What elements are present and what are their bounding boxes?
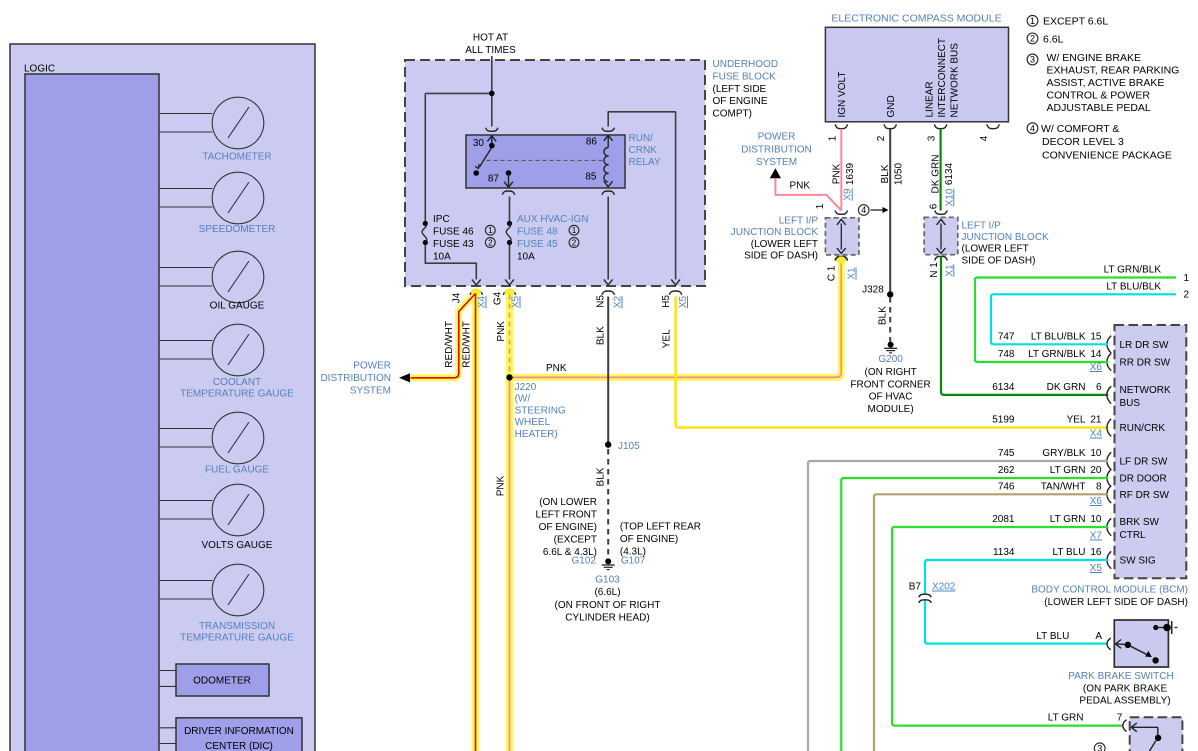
electronic compass module title [831,13,1001,25]
instrument panel cluster outer box (LOGIC) [10,44,315,751]
connector cup H5 [669,291,681,295]
relay pin 85 [585,172,614,195]
svg-text:ELECTRONIC COMPASS MODULE: ELECTRONIC COMPASS MODULE [831,13,1001,25]
connector labels N5 X2 [596,295,624,308]
svg-text:CONTROL & POWER: CONTROL & POWER [1047,89,1151,101]
gauge transmission temperature gauge [159,564,294,643]
relay linkage dashed line [487,159,606,161]
wire blk J105 to ground dashed [607,449,609,558]
splice J220 [506,374,566,440]
yellow highlight glow red/wht branch to power distribution [410,293,476,378]
svg-text:LT BLU: LT BLU [1036,631,1069,642]
svg-text:OF HVAC: OF HVAC [869,392,913,403]
power distribution system arrow up [741,132,812,192]
label BLK below J105 [595,467,606,486]
BCM pin 20 DR DOOR labels and cup [998,465,1167,487]
svg-text:B7: B7 [909,582,922,593]
svg-text:LEFT I/P: LEFT I/P [779,216,819,227]
battery feed wire into fuse block [425,56,494,221]
svg-text:X5: X5 [511,295,522,308]
relay caption [629,133,661,168]
svg-text:IGN VOLT: IGN VOLT [837,72,848,118]
BCM pin 16 SW SIG labels and cup [993,547,1156,569]
svg-text:CRNK: CRNK [629,145,658,156]
svg-text:PNK: PNK [496,321,507,342]
svg-text:NETWORK BUS: NETWORK BUS [950,43,961,118]
svg-text:OF ENGINE): OF ENGINE) [539,522,597,533]
svg-text:TEMPERATURE GAUGE: TEMPERATURE GAUGE [180,389,294,400]
svg-text:C 1: C 1 [826,265,837,281]
underhood fuse block caption [713,59,779,120]
svg-text:(W/: (W/ [515,394,531,405]
legend note 4 [1027,123,1172,162]
svg-text:86: 86 [586,136,598,147]
svg-text:X2: X2 [613,295,624,308]
svg-text:LINEAR: LINEAR [925,81,936,117]
svg-text:10A: 10A [517,251,535,262]
svg-text:PNK: PNK [831,163,842,184]
svg-text:LT GRN/BLK: LT GRN/BLK [1028,349,1086,360]
svg-text:LT BLU: LT BLU [1053,547,1086,558]
wire pnk branch to power distribution (top) [775,179,841,211]
svg-text:1134: 1134 [993,547,1015,558]
gauge volts gauge [159,484,273,551]
svg-text:SW SIG: SW SIG [1120,556,1156,567]
svg-text:RELAY: RELAY [629,157,661,168]
svg-text:LEFT I/P: LEFT I/P [962,221,1002,232]
svg-text:X5: X5 [678,295,689,308]
svg-text:X202: X202 [932,582,956,593]
gauge coolant temperature gauge [159,324,294,399]
svg-text:G103: G103 [595,575,620,586]
wire lt grn 2081 to park brake lamp [892,527,1122,726]
connector oval C1 [836,256,846,263]
connector cup C1 redraw [835,257,847,261]
BCM connector link X5 [1090,563,1103,574]
svg-text:FUSE 45: FUSE 45 [517,239,558,250]
right I/P junction block (dk grn) [924,203,958,260]
svg-text:LEFT FRONT: LEFT FRONT [536,510,597,521]
svg-text:30: 30 [473,138,485,149]
gauge tachometer [159,97,272,162]
ECM pin 2 cup [876,124,896,141]
svg-text:DR DOOR: DR DOOR [1120,474,1167,485]
svg-text:6134: 6134 [944,162,955,185]
svg-text:746: 746 [998,481,1015,492]
BCM pin 10 BRK SW CTRL labels and cup [992,514,1159,541]
svg-text:J4: J4 [452,292,463,303]
note 4 arrow to blk wire [858,205,888,216]
svg-text:7: 7 [1117,713,1123,724]
inline connector X202 B7 [909,582,956,603]
gauge fuel gauge [159,412,269,475]
run/crnk relay box [466,135,625,188]
svg-text:PARK BRAKE SWITCH: PARK BRAKE SWITCH [1068,671,1173,682]
svg-text:LT BLU/BLK: LT BLU/BLK [1106,281,1161,292]
svg-text:2081: 2081 [992,514,1015,525]
svg-text:INTERCONNECT: INTERCONNECT [937,38,948,117]
svg-text:21: 21 [1090,415,1102,426]
gauge oil gauge [159,251,265,311]
svg-text:LT GRN: LT GRN [1048,713,1084,724]
gauge speedometer [159,172,275,235]
svg-text:LT GRN: LT GRN [1050,465,1086,476]
svg-text:TRANSMISSION: TRANSMISSION [199,621,275,632]
svg-text:20: 20 [1090,465,1102,476]
connector cup G4 [503,291,515,295]
svg-text:LT GRN/BLK: LT GRN/BLK [1104,265,1162,276]
svg-text:WHEEL: WHEEL [515,417,551,428]
wire relay 86 to H5 [608,112,680,285]
wire red/wht vertical to bottom [475,294,477,751]
svg-text:262: 262 [998,465,1015,476]
labels N1 X1 [929,262,955,278]
svg-text:1639: 1639 [845,162,856,185]
svg-text:BLK: BLK [595,326,606,345]
BCM caption [1031,585,1188,609]
svg-text:4: 4 [1030,123,1035,133]
wire lt grn/blk page link 1 [975,265,1190,363]
svg-text:JUNCTION BLOCK: JUNCTION BLOCK [731,227,819,238]
svg-text:6.6L: 6.6L [1043,33,1064,45]
label YEL [661,329,672,348]
svg-text:FUSE BLOCK: FUSE BLOCK [713,71,777,82]
svg-text:(6.6L): (6.6L) [594,587,620,598]
label PNK below J220 [496,475,507,496]
svg-text:PNK: PNK [789,181,810,192]
svg-text:1050: 1050 [894,162,905,185]
yellow highlight glow pnk vertical G4 [506,293,513,751]
svg-text:GRY/BLK: GRY/BLK [1042,448,1085,459]
svg-text:ADJUSTABLE PEDAL: ADJUSTABLE PEDAL [1047,102,1151,114]
svg-text:RED/WHT: RED/WHT [462,321,473,368]
wire pnk J220 branch to C1 [510,258,842,377]
svg-text:HOT AT: HOT AT [473,33,508,44]
svg-text:CONVENIENCE PACKAGE: CONVENIENCE PACKAGE [1042,149,1172,161]
wire dk grn ECM pin3 to X10 [939,129,941,211]
svg-text:3: 3 [1030,55,1035,65]
svg-text:DK GRN: DK GRN [931,155,942,194]
svg-text:COOLANT: COOLANT [213,377,261,388]
svg-text:DK GRN: DK GRN [1047,382,1086,393]
svg-text:ODOMETER: ODOMETER [193,676,251,687]
svg-text:EXCEPT 6.6L: EXCEPT 6.6L [1043,16,1108,28]
svg-text:(ON LOWER: (ON LOWER [539,497,597,508]
wire lt grn 262 [841,478,1108,751]
connector oval J4 [471,288,481,295]
svg-text:1: 1 [572,226,577,235]
wire pnk G4 to J220 dashed [509,295,511,375]
svg-text:LT BLU/BLK: LT BLU/BLK [1031,331,1086,342]
ECM pin name LINEAR INTERCONNECT NETWORK BUS [925,38,961,117]
svg-text:X6: X6 [1090,496,1103,507]
svg-text:ASSIST, ACTIVE BRAKE: ASSIST, ACTIVE BRAKE [1047,77,1165,89]
svg-text:J328: J328 [862,285,884,296]
ground G102 location text [536,497,597,558]
svg-text:RED/WHT: RED/WHT [444,321,455,368]
svg-text:(LEFT SIDE: (LEFT SIDE [713,84,767,95]
svg-text:GND: GND [886,95,897,117]
svg-text:STEERING: STEERING [515,405,566,416]
electronic compass module box [825,27,1008,122]
svg-text:SPEEDOMETER: SPEEDOMETER [199,224,276,235]
svg-text:8: 8 [1096,481,1102,492]
relay switch lever [473,148,491,176]
ECM pin 1 cup [827,124,847,141]
svg-text:(ON RIGHT: (ON RIGHT [864,367,916,378]
connector labels H5 X5 [661,295,689,308]
ground G107 location text [620,522,701,558]
wire blk J328 to G200 dashed [889,297,891,342]
svg-text:TAN/WHT: TAN/WHT [1041,481,1086,492]
svg-text:BRK SW: BRK SW [1120,517,1160,528]
svg-text:BODY CONTROL MODULE (BCM): BODY CONTROL MODULE (BCM) [1031,585,1188,596]
svg-text:(LOWER LEFT SIDE OF DASH): (LOWER LEFT SIDE OF DASH) [1044,597,1188,608]
svg-text:RUN/: RUN/ [629,133,654,144]
svg-text:POWER: POWER [758,132,796,143]
svg-text:(TOP LEFT REAR: (TOP LEFT REAR [620,522,701,533]
svg-text:FUSE 46: FUSE 46 [433,226,474,237]
connector cup N5 [602,291,614,295]
wire yel H5 to BCM RUN/CRK [676,297,1109,428]
cluster inner logic box [25,74,159,751]
svg-text:(4.3L): (4.3L) [620,546,646,557]
svg-text:DISTRIBUTION: DISTRIBUTION [320,373,391,384]
park brake switch contacts [1153,621,1177,634]
svg-text:J105: J105 [618,441,640,452]
svg-text:87: 87 [488,173,500,184]
svg-text:X7: X7 [1090,531,1103,542]
svg-text:G200: G200 [878,354,903,365]
svg-text:BUS: BUS [1120,398,1141,409]
labels C1 X1 [826,265,857,281]
body control module (BCM) box [1115,325,1187,578]
svg-text:H5: H5 [661,295,672,308]
wire gry/blk 745 [808,461,1108,751]
wire blk ECM pin2 to J328 [889,129,891,295]
svg-text:2: 2 [1184,289,1190,300]
svg-text:(LOWER LEFT: (LOWER LEFT [962,244,1029,255]
svg-text:10A: 10A [433,251,451,262]
svg-text:OF ENGINE: OF ENGINE [713,96,768,107]
connector cup J4 [470,291,482,295]
svg-text:J220: J220 [515,382,537,393]
legend note 3 [1027,52,1179,114]
BCM pin 15 LR DR SW labels and cup [998,331,1169,353]
svg-text:N 1: N 1 [929,262,940,278]
svg-text:LF DR SW: LF DR SW [1120,457,1168,468]
svg-text:PNK: PNK [496,475,507,496]
labels RED/WHT [444,321,473,368]
driver information center (DIC) box [159,718,302,751]
svg-text:CTRL: CTRL [1120,530,1147,541]
splice J328 [862,285,893,298]
svg-text:CENTER (DIC): CENTER (DIC) [205,741,273,751]
note 3 circle bottom [1094,743,1105,751]
ECM pin 4 cup [979,124,999,141]
BCM pin 10 LF DR SW labels and cup [998,448,1168,470]
svg-text:VOLTS GAUGE: VOLTS GAUGE [202,540,273,551]
wire fuse 45 to G4 exit [505,245,514,285]
svg-text:ALL TIMES: ALL TIMES [465,45,516,56]
svg-text:LT GRN: LT GRN [1050,514,1086,525]
svg-text:PEDAL ASSEMBLY): PEDAL ASSEMBLY) [1079,695,1170,706]
svg-text:4: 4 [979,135,990,141]
svg-text:G4: G4 [493,291,504,305]
svg-text:MODULE): MODULE) [868,404,914,415]
svg-text:(ON FRONT OF RIGHT: (ON FRONT OF RIGHT [555,600,661,611]
svg-text:X4: X4 [477,295,488,308]
svg-text:DISTRIBUTION: DISTRIBUTION [741,145,812,156]
legend note 2 [1027,33,1063,45]
svg-text:RUN/CRK: RUN/CRK [1120,423,1166,434]
svg-text:SIDE OF DASH): SIDE OF DASH) [744,250,818,261]
svg-text:W/ COMFORT &: W/ COMFORT & [1041,123,1119,135]
svg-text:LR DR SW: LR DR SW [1120,340,1169,351]
ECM pin name IGN VOLT [837,72,848,118]
wire lt blu 1134 lower to park brake switch [925,601,1107,644]
HOT AT ALL TIMES label [465,33,516,56]
svg-text:W/ ENGINE BRAKE: W/ ENGINE BRAKE [1047,52,1142,64]
label PNK horizontal [546,363,567,374]
park brake switch lever [1116,640,1159,664]
label BLK at G200 [878,306,889,325]
svg-text:2: 2 [876,135,887,141]
connector labels G4 X5 [493,291,522,308]
svg-text:(LOWER LEFT: (LOWER LEFT [751,239,818,250]
wire red/wht branch to power distribution system [411,294,476,378]
wire lt blu 1134 upper [925,560,1108,594]
svg-text:X10: X10 [944,188,955,206]
svg-text:2: 2 [488,238,493,247]
park brake switch box [1114,620,1168,667]
park brake indicator pin 7 cup and labels [1048,713,1127,732]
underhood fuse block box [405,60,705,286]
svg-text:2: 2 [572,238,577,247]
svg-text:1: 1 [827,135,838,141]
svg-text:745: 745 [998,448,1015,459]
svg-text:SIDE OF DASH): SIDE OF DASH) [962,255,1036,266]
svg-text:5199: 5199 [992,415,1015,426]
svg-text:1: 1 [815,203,826,209]
BCM connector link X6 (door rows) [1090,496,1103,507]
svg-text:14: 14 [1090,349,1102,360]
svg-text:A: A [1095,631,1102,642]
wire relay 85 to N5 [604,197,613,286]
park brake indicator box (bottom right) [1130,717,1183,751]
svg-text:(ON PARK BRAKE: (ON PARK BRAKE [1083,683,1168,694]
svg-text:15: 15 [1090,331,1102,342]
connector oval G4 [504,288,514,295]
relay pin 86 and coil [586,128,615,182]
svg-text:TACHOMETER: TACHOMETER [202,152,271,163]
ECM pin name GND [886,95,897,117]
svg-text:NETWORK: NETWORK [1120,385,1171,396]
park brake indicator lever [1131,723,1161,751]
label PNK on G4 wire [496,321,507,342]
legend note 1 [1027,15,1108,27]
svg-text:X1: X1 [847,267,858,280]
svg-text:TEMPERATURE GAUGE: TEMPERATURE GAUGE [180,633,294,644]
svg-text:UNDERHOOD: UNDERHOOD [713,59,779,70]
svg-text:748: 748 [998,349,1015,360]
svg-text:EXHAUST, REAR PARKING: EXHAUST, REAR PARKING [1047,64,1180,76]
svg-text:OIL GAUGE: OIL GAUGE [210,301,265,312]
fuse AUX HVAC-IGN FUSE 48 / FUSE 45 [506,197,588,263]
park brake switch caption [1068,671,1173,706]
svg-text:BLK: BLK [595,467,606,486]
svg-text:1: 1 [1184,273,1190,284]
right junction block caption [962,221,1050,267]
svg-text:16: 16 [1090,547,1102,558]
svg-text:1: 1 [1030,16,1035,26]
park brake switch pin A cup and labels [1036,631,1110,650]
link X9 [843,188,854,201]
wire lt blu/blk page link 2 [991,281,1190,344]
ground G102/G107 [572,556,646,570]
svg-text:FRONT CORNER: FRONT CORNER [850,379,930,390]
labels PNK 1639 [831,162,856,185]
svg-text:6134: 6134 [992,382,1015,393]
power distribution system arrow left [320,361,410,397]
svg-text:FUEL GAUGE: FUEL GAUGE [205,465,269,476]
svg-text:SYSTEM: SYSTEM [756,157,797,168]
svg-text:6: 6 [928,203,939,209]
relay pin 30 [473,128,498,149]
svg-text:X1: X1 [944,264,955,277]
svg-text:3: 3 [927,135,938,141]
wire fuse 43 to J4 exit [425,245,480,285]
svg-text:IPC: IPC [433,214,450,225]
svg-text:DECOR LEVEL 3: DECOR LEVEL 3 [1042,136,1124,148]
svg-text:LOGIC: LOGIC [24,64,55,75]
odometer box [159,664,269,696]
svg-text:6: 6 [1096,382,1102,393]
svg-text:3: 3 [1097,744,1102,751]
splice J105 [605,441,640,452]
svg-text:(EXCEPT: (EXCEPT [554,535,597,546]
connector labels J4 X4 [452,292,488,308]
svg-text:RF DR SW: RF DR SW [1120,490,1170,501]
svg-text:X9: X9 [843,188,854,201]
svg-text:10: 10 [1090,514,1102,525]
svg-text:N5: N5 [596,295,607,308]
svg-text:FUSE 48: FUSE 48 [517,226,558,237]
wire tan/wht 746 [874,494,1108,751]
svg-text:AUX HVAC-IGN: AUX HVAC-IGN [517,214,589,225]
wire dk grn to BCM NETWORK BUS [941,256,1108,395]
svg-text:X5: X5 [1090,563,1103,574]
svg-text:RR DR SW: RR DR SW [1120,358,1171,369]
LOGIC label [24,64,55,75]
svg-text:X4: X4 [1090,429,1103,440]
svg-text:YEL: YEL [661,329,672,348]
svg-text:85: 85 [585,172,597,183]
BCM pin 21 RUN/CRK labels and cup [992,415,1165,437]
yellow highlight glow red/wht vertical [472,293,479,751]
svg-text:COMPT): COMPT) [713,109,752,120]
svg-text:X6: X6 [1090,362,1103,373]
svg-text:747: 747 [998,331,1015,342]
ground G103 text [555,575,661,624]
svg-text:6.6L & 4.3L): 6.6L & 4.3L) [543,547,597,558]
svg-text:HEATER): HEATER) [515,429,558,440]
ground G200 [850,342,930,416]
labels BLK 1050 [880,162,905,185]
BCM connector link X7 [1090,531,1103,542]
BCM connector link X4 [1090,429,1103,440]
svg-text:4: 4 [861,205,866,215]
